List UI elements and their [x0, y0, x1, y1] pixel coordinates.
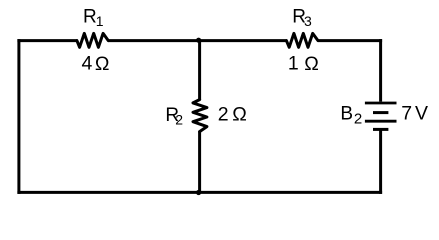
wire left side — [17, 39, 20, 194]
svg-text:2: 2 — [218, 103, 229, 125]
svg-text:B: B — [340, 103, 353, 124]
wire middle branch upper — [198, 41, 201, 100]
wire top-middle segment — [108, 39, 286, 42]
battery long plate bottom — [365, 120, 397, 123]
svg-text:1: 1 — [96, 13, 104, 29]
svg-text:Ω: Ω — [304, 53, 319, 75]
svg-text:Ω: Ω — [95, 53, 110, 75]
svg-text:2: 2 — [175, 111, 183, 127]
svg-text:V: V — [415, 103, 428, 125]
wire top-left segment — [17, 39, 77, 42]
resistor R1 — [77, 33, 108, 47]
svg-text:R: R — [83, 6, 97, 27]
node junction top — [196, 38, 201, 43]
wire bottom — [17, 191, 382, 194]
svg-text:1: 1 — [288, 53, 299, 75]
resistor R3 — [286, 33, 318, 47]
svg-text:Ω: Ω — [232, 103, 247, 125]
svg-text:3: 3 — [304, 13, 312, 29]
battery long plate top — [365, 102, 397, 105]
wire top-right segment — [318, 39, 382, 42]
svg-text:2: 2 — [354, 111, 362, 128]
battery B2 — [365, 103, 397, 129]
wire middle branch lower — [198, 132, 201, 193]
wire right upper (to battery) — [379, 39, 382, 102]
node junction bottom — [196, 190, 201, 195]
battery short plate upper — [373, 111, 388, 114]
svg-text:7: 7 — [401, 103, 412, 125]
svg-text:4: 4 — [82, 53, 93, 75]
resistor R2 — [193, 100, 207, 132]
battery short plate lower — [373, 128, 388, 131]
wire right lower (from battery) — [379, 130, 382, 194]
